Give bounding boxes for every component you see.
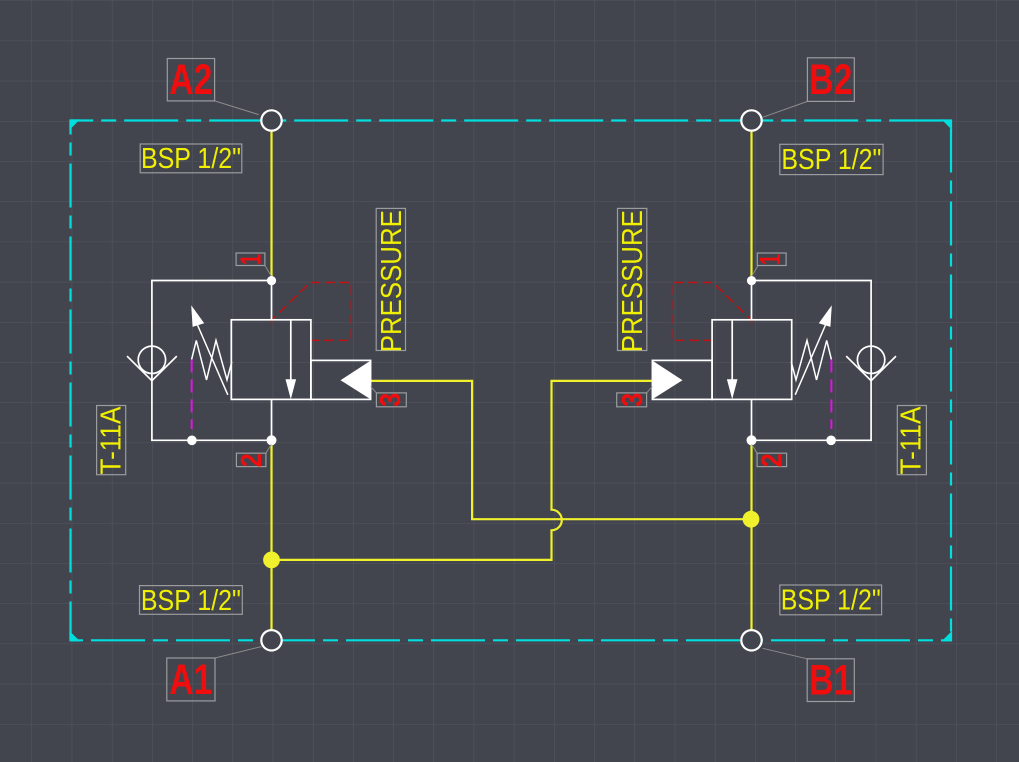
svg-text:2: 2 (757, 453, 789, 467)
svg-text:B1: B1 (809, 657, 852, 705)
svg-text:A2: A2 (169, 56, 212, 104)
svg-text:3: 3 (375, 393, 407, 407)
svg-text:1: 1 (755, 254, 787, 265)
svg-text:PRESSURE: PRESSURE (376, 210, 408, 352)
svg-text:BSP 1/2": BSP 1/2" (781, 585, 881, 617)
svg-text:T-11A: T-11A (95, 406, 127, 475)
svg-text:2: 2 (236, 453, 268, 467)
svg-text:PRESSURE: PRESSURE (617, 210, 649, 352)
svg-text:A1: A1 (169, 656, 212, 704)
svg-text:B2: B2 (809, 56, 852, 104)
svg-text:3: 3 (617, 393, 649, 407)
svg-text:BSP 1/2": BSP 1/2" (141, 143, 241, 175)
svg-text:1: 1 (236, 254, 268, 265)
svg-text:T-11A: T-11A (895, 406, 927, 475)
svg-text:BSP 1/2": BSP 1/2" (781, 144, 881, 176)
svg-text:BSP 1/2": BSP 1/2" (141, 585, 241, 617)
